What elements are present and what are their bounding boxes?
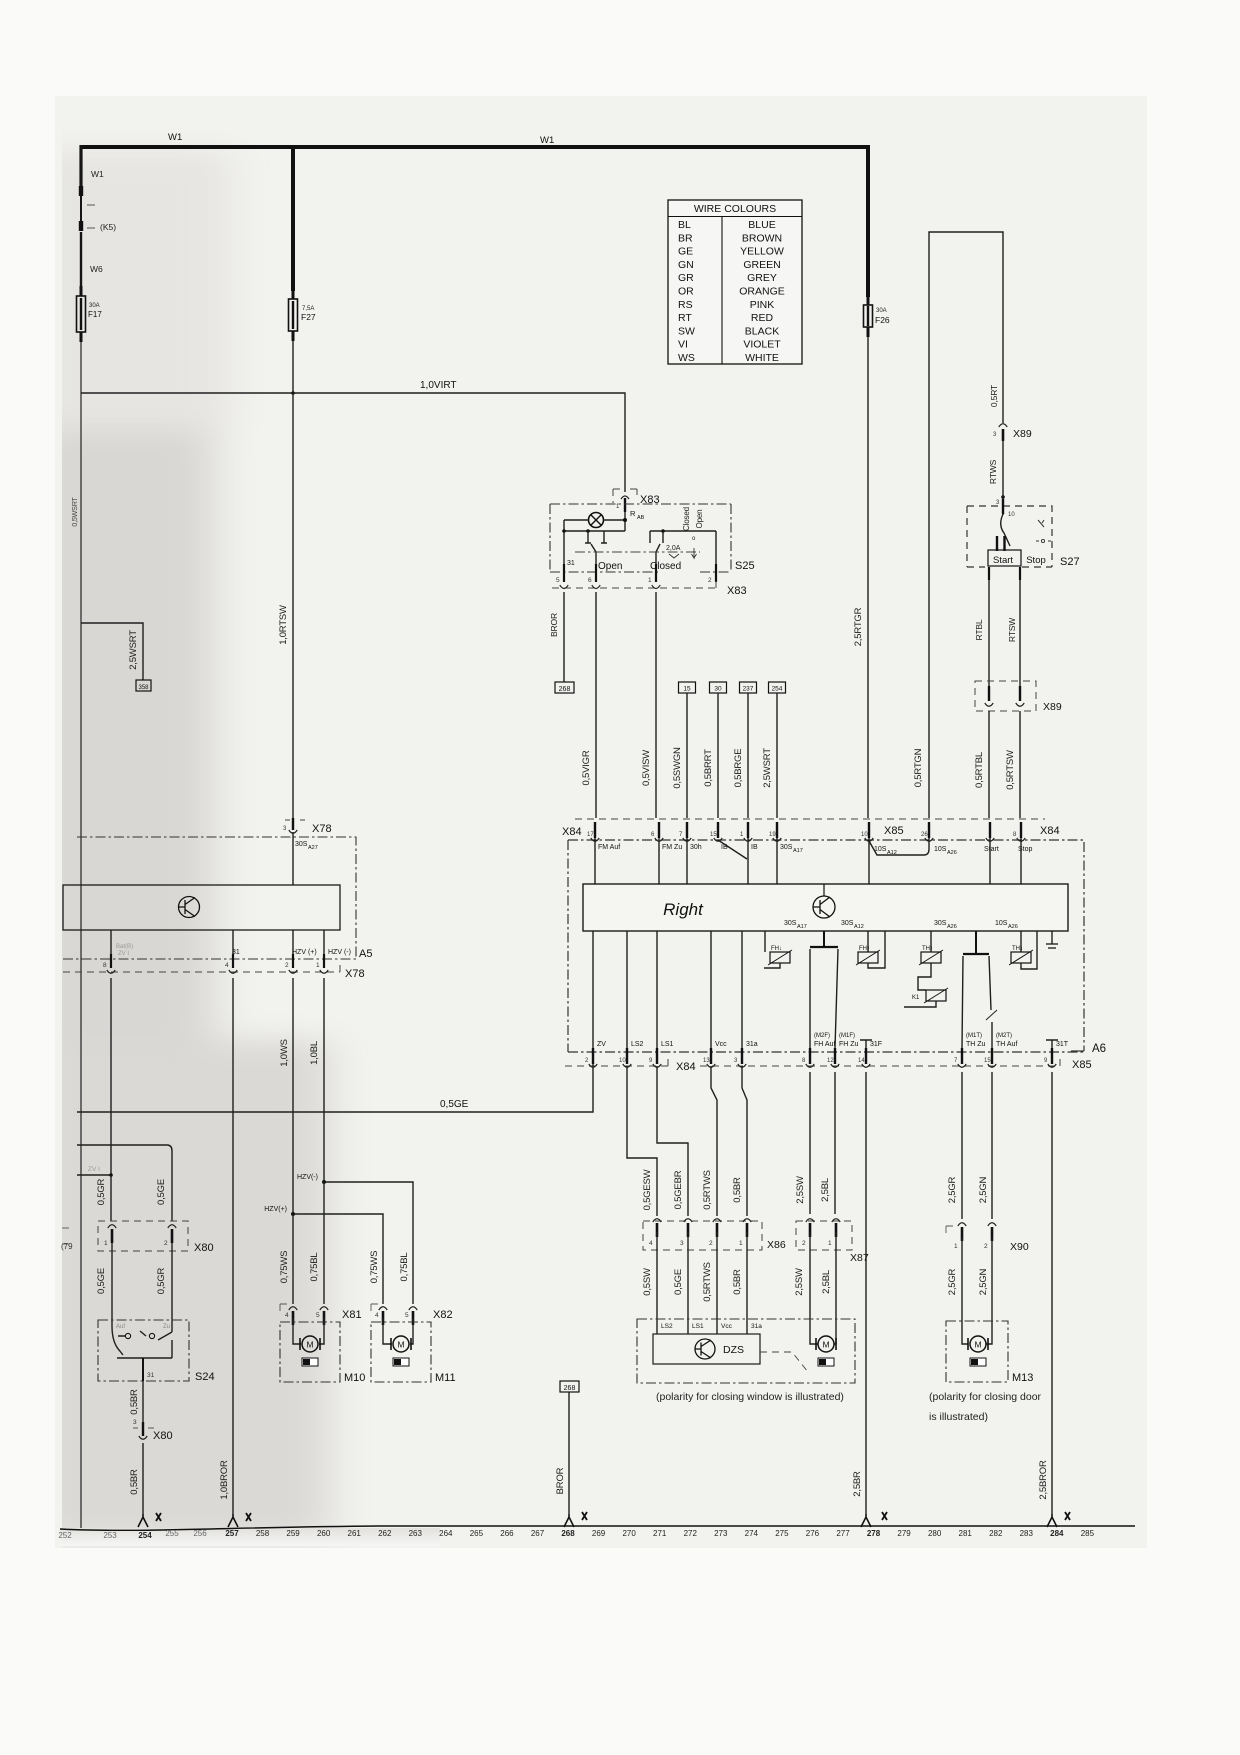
S25 detent arrow	[692, 548, 697, 558]
connector pin X84/X85 top x=990	[989, 822, 991, 838]
fuse F27	[292, 291, 295, 341]
svg-text:X78: X78	[345, 968, 365, 980]
wire 2,5WSRT branch	[81, 623, 143, 680]
connector X84 X85 bottom housing dashes	[565, 1059, 1060, 1066]
svg-text:278: 278	[867, 1529, 881, 1538]
svg-text:Open: Open	[695, 510, 704, 529]
wire lamp rail lower	[564, 520, 625, 566]
connector X90	[946, 1226, 954, 1236]
svg-text:TH↓: TH↓	[1012, 946, 1023, 952]
wire from box 254 down	[776, 693, 778, 818]
svg-text:BLACK: BLACK	[745, 325, 779, 337]
svg-text:0,5GR: 0,5GR	[96, 1178, 107, 1205]
svg-text:A26: A26	[1008, 924, 1018, 930]
svg-text:is illustrated): is illustrated)	[929, 1411, 988, 1423]
connector X89 lower	[975, 681, 1036, 711]
svg-text:M: M	[397, 1340, 404, 1350]
S25 pin ticks	[563, 564, 565, 582]
svg-text:FH↑: FH↑	[859, 946, 870, 952]
svg-text:LS1: LS1	[661, 1041, 674, 1048]
switch S24 dashed box	[98, 1320, 189, 1381]
svg-text:S27: S27	[1060, 556, 1080, 568]
svg-text:4: 4	[225, 962, 229, 969]
svg-text:6: 6	[588, 577, 592, 584]
ground at 284	[1047, 1514, 1057, 1527]
S25 right branch rail	[650, 531, 716, 543]
S25 mechanical coupling line	[575, 551, 700, 553]
connector X81	[289, 1307, 297, 1310]
connector pin X84/X85 top x=718	[717, 822, 719, 838]
svg-text:Right: Right	[663, 900, 704, 919]
connector pin X84/X85 bottom LS1	[656, 1048, 658, 1064]
svg-text:HZV (+): HZV (+)	[292, 949, 317, 956]
svg-text:0,5BR: 0,5BR	[129, 1469, 140, 1495]
svg-text:254: 254	[772, 686, 783, 693]
wire RTWS X89 to S27	[1002, 440, 1004, 515]
wire 2,5GN down	[991, 1072, 993, 1219]
svg-text:271: 271	[653, 1529, 667, 1538]
svg-text:10S: 10S	[995, 920, 1008, 927]
svg-text:31: 31	[567, 560, 575, 567]
wires into motor M11	[383, 1318, 413, 1344]
junction HZV(+)	[291, 1212, 295, 1216]
svg-text:1: 1	[316, 962, 320, 969]
svg-text:Start: Start	[993, 555, 1013, 566]
svg-text:X89: X89	[1043, 701, 1062, 713]
wire 2,5BROR ground wire	[1051, 1072, 1053, 1514]
wire 1,0WS	[292, 978, 294, 1214]
svg-text:FM Zu: FM Zu	[662, 844, 682, 851]
svg-text:8: 8	[103, 962, 107, 969]
connector pin X84/X85 top x=595	[594, 822, 596, 838]
svg-text:GREY: GREY	[747, 272, 777, 284]
svg-text:RT: RT	[678, 312, 692, 324]
svg-text:30: 30	[714, 686, 722, 693]
svg-text:0,5BR: 0,5BR	[732, 1177, 743, 1203]
svg-text:31: 31	[147, 1372, 155, 1379]
svg-text:TH↑: TH↑	[922, 946, 933, 952]
svg-text:Vcc: Vcc	[721, 1323, 733, 1330]
svg-text:LS2: LS2	[631, 1041, 644, 1048]
svg-text:X84: X84	[1040, 825, 1060, 837]
svg-text:2: 2	[709, 1240, 713, 1247]
svg-text:0,75WS: 0,75WS	[369, 1251, 380, 1284]
connector pin X84/X85 top x=869	[868, 822, 870, 838]
svg-text:(polarity for closing door: (polarity for closing door	[929, 1391, 1042, 1403]
motor M11 polarity box	[393, 1358, 409, 1366]
junction at lamp feed	[623, 518, 627, 522]
connector X80 lower	[142, 1422, 144, 1436]
svg-text:RTWS: RTWS	[988, 459, 998, 484]
wires Right box to bottom pins	[593, 931, 742, 1048]
svg-text:X85: X85	[884, 825, 904, 837]
svg-text:X85: X85	[1072, 1059, 1092, 1071]
module A6 dashed outline	[568, 840, 1084, 1052]
svg-text:0,5RTBL: 0,5RTBL	[974, 752, 985, 788]
svg-text:X84: X84	[676, 1061, 696, 1073]
svg-text:W1: W1	[91, 169, 104, 179]
svg-text:IB: IB	[751, 844, 758, 851]
svg-text:15: 15	[984, 1058, 991, 1064]
svg-text:30S: 30S	[784, 920, 797, 927]
svg-text:PINK: PINK	[750, 299, 775, 311]
svg-text:Stop: Stop	[1026, 555, 1046, 566]
connector pin X84/X85 bottom FH Auf	[809, 1048, 811, 1064]
svg-text:1: 1	[739, 1240, 743, 1247]
svg-text:W1: W1	[168, 132, 182, 143]
reference box 15	[679, 682, 696, 693]
S24 blades	[112, 1326, 172, 1355]
svg-text:X90: X90	[1010, 1241, 1029, 1253]
wires X90 to M13	[962, 1238, 992, 1344]
motor M11 dashed box	[371, 1322, 431, 1382]
svg-text:X80: X80	[153, 1430, 173, 1442]
connector pin X84/X85 top x=659	[658, 822, 660, 838]
ground at 278	[861, 1514, 871, 1527]
motor M13 dashed box	[946, 1321, 1008, 1382]
svg-text:Zu: Zu	[163, 1324, 170, 1330]
relay TH up	[930, 931, 932, 952]
svg-text:YELLOW: YELLOW	[740, 246, 784, 258]
svg-text:2: 2	[285, 962, 289, 969]
svg-text:A5: A5	[359, 948, 372, 960]
svg-text:253: 253	[103, 1531, 117, 1540]
A5 pins	[110, 954, 112, 968]
wire 2,5BL down	[834, 1072, 836, 1214]
svg-text:A17: A17	[797, 924, 807, 930]
S27 output pins	[989, 567, 1020, 580]
svg-text:M: M	[822, 1340, 829, 1350]
switch fork FH	[823, 931, 825, 947]
svg-text:X82: X82	[433, 1309, 453, 1321]
svg-text:FH↓: FH↓	[771, 946, 782, 952]
svg-text:30A: 30A	[876, 308, 887, 314]
svg-text:RS: RS	[678, 299, 693, 311]
svg-text:265: 265	[470, 1529, 484, 1538]
jumper 10S pins	[869, 838, 929, 855]
ground at 268	[564, 1514, 574, 1527]
S27 pin 10	[1002, 499, 1004, 514]
svg-text:10: 10	[861, 832, 868, 838]
svg-text:Vcc: Vcc	[715, 1041, 727, 1048]
svg-text:AB: AB	[637, 515, 645, 521]
svg-text:A17: A17	[793, 848, 803, 854]
svg-text:30S: 30S	[295, 841, 308, 848]
svg-text:1: 1	[954, 1243, 958, 1250]
svg-text:257: 257	[225, 1529, 239, 1538]
svg-text:M13: M13	[1012, 1372, 1033, 1384]
svg-text:(M1F): (M1F)	[839, 1033, 855, 1039]
svg-text:0,5RTSW: 0,5RTSW	[1005, 750, 1016, 790]
module A5 dashed outline	[77, 837, 356, 959]
svg-text:R: R	[630, 509, 636, 518]
svg-text:2,5GR: 2,5GR	[947, 1176, 958, 1203]
junction right rail	[661, 529, 665, 533]
wire X80 pin2 to S24	[171, 1243, 173, 1332]
svg-text:3: 3	[680, 1240, 684, 1247]
motor M11 symbol	[393, 1336, 409, 1352]
svg-text:260: 260	[317, 1529, 331, 1538]
wire 0,5BR lower	[142, 1443, 144, 1514]
wire 1,0VIRT	[81, 393, 625, 492]
S27 contact ticks	[997, 536, 1005, 551]
connector pin X84/X85 bottom Vcc	[710, 1048, 712, 1064]
connector X83 top	[613, 489, 638, 503]
svg-text:1: 1	[828, 1240, 832, 1247]
svg-text:BROR: BROR	[549, 613, 559, 637]
svg-text:2,5BROR: 2,5BROR	[1038, 1460, 1049, 1500]
svg-text:HZV(-): HZV(-)	[297, 1174, 318, 1181]
svg-text:VI: VI	[678, 339, 688, 351]
connector pin X84/X85 bottom LS2	[626, 1048, 628, 1064]
svg-text:30A: 30A	[89, 303, 100, 309]
ground at 257	[228, 1514, 238, 1527]
svg-text:1,0RTSW: 1,0RTSW	[278, 605, 289, 645]
S27 switch blade	[1001, 514, 1010, 546]
motor M13 polarity box	[970, 1358, 986, 1366]
switch S25 dashed box	[550, 504, 731, 572]
svg-text:Closed: Closed	[650, 561, 681, 572]
svg-text:19: 19	[769, 832, 776, 838]
wire lamp rail upper	[564, 512, 625, 531]
svg-text:2,5SW: 2,5SW	[794, 1268, 805, 1296]
svg-text:X89: X89	[1013, 428, 1032, 440]
svg-text:259: 259	[286, 1529, 300, 1538]
S24 bottom bus	[117, 1340, 172, 1358]
svg-text:0,5SWGN: 0,5SWGN	[672, 747, 683, 789]
svg-text:M11: M11	[435, 1372, 456, 1384]
svg-text:F17: F17	[88, 310, 102, 319]
svg-text:GN: GN	[678, 259, 694, 271]
S27 side marks	[1038, 520, 1044, 527]
svg-text:Stop: Stop	[1018, 846, 1033, 853]
svg-text:0,5BR: 0,5BR	[732, 1269, 743, 1295]
svg-text:0,5RTWS: 0,5RTWS	[702, 1170, 713, 1210]
connector pin X84/X85 bottom 31a	[741, 1048, 743, 1064]
ground at 254	[138, 1514, 148, 1527]
connector pin X84/X85 bottom ZV	[592, 1048, 594, 1064]
svg-text:15: 15	[710, 832, 717, 838]
svg-text:256: 256	[193, 1529, 207, 1538]
svg-text:Open: Open	[598, 561, 622, 572]
wire 0,75BL to M10	[323, 1182, 325, 1304]
wire 0,5BR upper	[142, 1381, 144, 1422]
svg-text:30S: 30S	[934, 920, 947, 927]
svg-text:WIRE COLOURS: WIRE COLOURS	[694, 203, 776, 215]
svg-text:GE: GE	[678, 246, 693, 258]
DZS inner box	[653, 1334, 760, 1364]
svg-text:279: 279	[897, 1529, 911, 1538]
junction HZV(-)	[322, 1180, 326, 1184]
wire HZV(-) jog	[324, 1182, 413, 1304]
svg-text:M: M	[306, 1340, 313, 1350]
wires into motor M10	[293, 1318, 324, 1344]
svg-text:0,5SW: 0,5SW	[642, 1268, 653, 1296]
wire HZV(+) jog	[293, 1214, 383, 1304]
svg-text:266: 266	[500, 1529, 514, 1538]
relay FH up	[867, 931, 869, 952]
svg-text:26: 26	[921, 832, 928, 838]
S27 detent box	[988, 550, 1021, 566]
wires top pins into Right box	[595, 838, 1021, 884]
DZS internal dashed link	[760, 1352, 808, 1372]
reference box 237	[740, 682, 757, 693]
svg-text:31a: 31a	[746, 1041, 758, 1048]
wire 0,5GEBR jog	[657, 1066, 688, 1216]
svg-text:263: 263	[409, 1529, 423, 1538]
S25 movable contact closed side	[656, 544, 660, 566]
svg-text:285: 285	[1081, 1529, 1095, 1538]
svg-text:1,0VIRT: 1,0VIRT	[420, 380, 457, 391]
junction dots on lower rail	[562, 529, 566, 533]
wire 0,5VIGR	[595, 592, 597, 818]
wire BROR from S25 pin5	[563, 592, 565, 682]
svg-text:274: 274	[745, 1529, 759, 1538]
S25 fixed contacts left	[585, 531, 607, 543]
svg-text:(79: (79	[61, 1242, 73, 1251]
svg-text:SW: SW	[678, 325, 695, 337]
svg-text:1: 1	[104, 1240, 108, 1247]
svg-text:270: 270	[622, 1529, 636, 1538]
svg-text:A26: A26	[947, 850, 957, 856]
svg-text:17: 17	[587, 832, 594, 838]
svg-text:Auf: Auf	[116, 1324, 125, 1330]
wire from box 30 down	[717, 693, 719, 818]
svg-text:Bat(B): Bat(B)	[116, 944, 133, 950]
connector X82	[379, 1307, 387, 1310]
svg-text:358: 358	[138, 685, 149, 691]
svg-text:(polarity for closing window i: (polarity for closing window is illustra…	[656, 1391, 844, 1403]
wires X86 to DZS	[657, 1232, 747, 1320]
svg-text:X80: X80	[194, 1242, 214, 1254]
wire X80 pin1 to S24	[111, 1243, 113, 1326]
svg-text:5: 5	[316, 1312, 320, 1319]
svg-text:281: 281	[959, 1529, 973, 1538]
svg-text:FH Auf: FH Auf	[814, 1041, 835, 1048]
svg-text:0,5VISW: 0,5VISW	[641, 750, 652, 786]
svg-text:F26: F26	[875, 315, 890, 325]
DZS motor polarity box	[818, 1358, 834, 1366]
svg-text:282: 282	[989, 1529, 1003, 1538]
wire 0,5RTGN riser to S27 loop	[929, 232, 1003, 818]
svg-text:0,5GEBR: 0,5GEBR	[673, 1170, 684, 1209]
svg-text:ZV I: ZV I	[118, 951, 129, 957]
svg-text:2: 2	[708, 577, 712, 584]
svg-text:3: 3	[133, 1419, 137, 1426]
svg-text:31T: 31T	[1056, 1041, 1069, 1048]
svg-text:A12: A12	[854, 924, 864, 930]
svg-text:1,0BROR: 1,0BROR	[219, 1460, 230, 1500]
svg-text:0,5WSRT: 0,5WSRT	[71, 497, 79, 527]
wire RTSW	[1019, 580, 1021, 686]
svg-text:0,5VIGR: 0,5VIGR	[581, 750, 592, 785]
wire 0,75WS to M10	[292, 1214, 294, 1304]
svg-text:HZV(+): HZV(+)	[264, 1206, 287, 1213]
connector pin X84/X85 top x=929	[928, 822, 930, 838]
wire 0,5VISW	[655, 592, 657, 818]
svg-text:276: 276	[806, 1529, 820, 1538]
svg-text:BL: BL	[678, 219, 691, 231]
svg-text:255: 255	[165, 1529, 179, 1538]
svg-text:RTBL: RTBL	[974, 619, 984, 640]
reference box 30	[710, 682, 727, 693]
motor M10 symbol	[302, 1336, 318, 1352]
svg-text:ZV I: ZV I	[88, 1166, 100, 1173]
svg-text:4: 4	[375, 1312, 379, 1319]
module DZS dashed box	[637, 1319, 855, 1383]
svg-text:TH Auf: TH Auf	[996, 1041, 1017, 1048]
connector X83 bottom	[552, 581, 716, 588]
svg-text:2,5WSRT: 2,5WSRT	[128, 630, 139, 670]
svg-text:1,0BL: 1,0BL	[309, 1041, 320, 1065]
connector pin X84/X85 top x=748	[747, 822, 749, 838]
svg-text:K1: K1	[912, 995, 920, 1001]
svg-text:FM Auf: FM Auf	[598, 844, 620, 851]
svg-text:10: 10	[1008, 512, 1015, 518]
connector X87	[796, 1221, 852, 1250]
svg-text:261: 261	[348, 1529, 362, 1538]
svg-text:268: 268	[561, 1529, 575, 1538]
svg-text:273: 273	[714, 1529, 728, 1538]
transistor in DZS	[695, 1339, 715, 1359]
wire W6	[80, 232, 82, 288]
svg-text:2,5WSRT: 2,5WSRT	[762, 748, 773, 788]
svg-text:0,5GESW: 0,5GESW	[642, 1169, 653, 1210]
svg-text:12: 12	[827, 1058, 834, 1064]
svg-text:WS: WS	[678, 352, 695, 364]
svg-text:2,5GR: 2,5GR	[947, 1268, 958, 1295]
svg-text:272: 272	[684, 1529, 698, 1538]
svg-text:30S: 30S	[780, 844, 793, 851]
svg-text:RED: RED	[751, 312, 774, 324]
svg-text:5: 5	[556, 577, 560, 584]
connector X80 upper	[98, 1221, 188, 1251]
svg-text:0,5GE: 0,5GE	[673, 1269, 684, 1295]
pin 31F stub	[860, 1040, 872, 1048]
wire X78 into A5 box	[292, 832, 294, 885]
svg-text:31F: 31F	[870, 1041, 882, 1048]
connector X89 upper	[999, 424, 1007, 427]
svg-text:2: 2	[164, 1240, 168, 1247]
A5 internal box	[63, 885, 340, 930]
DZS motor symbol	[818, 1336, 834, 1352]
reference box 268 bottom	[560, 1381, 579, 1392]
svg-text:LS2: LS2	[661, 1323, 673, 1330]
svg-text:0,75BL: 0,75BL	[399, 1253, 410, 1282]
connector pin X84/X85 bottom 31F	[865, 1048, 867, 1064]
A5 bottom connector row	[63, 958, 356, 960]
wire 2,5GR down	[961, 1072, 963, 1219]
svg-text:0,5RTWS: 0,5RTWS	[702, 1262, 713, 1302]
transistor in Right box	[823, 884, 825, 896]
svg-text:LS1: LS1	[692, 1323, 704, 1330]
relay FH down	[764, 931, 766, 952]
Right module box	[583, 884, 1068, 931]
wire 0,5BR down	[742, 1066, 747, 1216]
svg-text:258: 258	[256, 1529, 270, 1538]
wire from box 15 down	[686, 693, 688, 818]
svg-text:FH Zu: FH Zu	[839, 1041, 859, 1048]
svg-text:1,0WS: 1,0WS	[279, 1039, 290, 1067]
svg-text:2,5BL: 2,5BL	[821, 1270, 832, 1294]
wire 0,5RTBL	[988, 711, 990, 818]
svg-text:262: 262	[378, 1529, 392, 1538]
connector pin X84/X85 bottom TH Zu	[961, 1048, 963, 1064]
wire 0,5RTWS down	[711, 1066, 717, 1216]
connector X78 top	[285, 819, 305, 821]
svg-text:267: 267	[531, 1529, 545, 1538]
wire BROR to ground	[568, 1392, 570, 1514]
